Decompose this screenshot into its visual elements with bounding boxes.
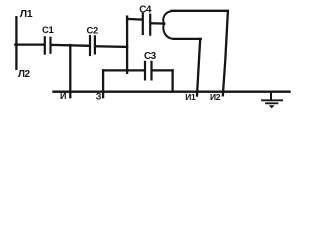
ground bar 3 (blob) [269,105,275,108]
wire: bottom bus [54,90,290,92]
capacitor C4 left plate [142,14,144,34]
svg-text:С1: С1 [42,25,54,36]
svg-text:И: И [60,91,66,101]
wire: output 1 vertical down to bus [197,39,200,96]
capacitor C1 left plate [44,37,46,53]
wire: branch to C4 [127,18,142,21]
svg-text:С2: С2 [87,25,98,36]
svg-text:С3: С3 [144,51,157,62]
wire: C3 loop top left segment [103,69,144,71]
capacitor C4 right plate [149,15,151,35]
wire: C4 to output brace [151,22,164,25]
capacitor C2 left plate [89,36,91,55]
wire: main horizontal from antenna to C1 [15,43,44,45]
wire: bottom line to output 1 [174,38,201,40]
svg-text:Л1: Л1 [20,8,33,20]
capacitor C3 left plate [144,62,146,80]
svg-text:И2: И2 [210,92,221,102]
wire: output 2 vertical down to bus [223,11,228,96]
ground bar 1 [262,99,282,101]
ground stem [270,93,272,101]
ground bar 2 [266,102,277,104]
svg-text:С4: С4 [139,5,152,16]
wire: junction I vertical (main wire down to bus) [69,45,71,97]
wire: C3 loop left vertical (node Z) [102,70,104,97]
svg-text:З: З [96,91,102,101]
capacitor C3 right plate [150,62,152,80]
svg-text:Л2: Л2 [18,69,31,80]
wire: top line to output 2 [172,10,228,12]
wire: C3 loop right vertical [171,70,173,91]
brace curl lower arc [163,24,173,39]
capacitor C1 right plate [49,38,51,53]
antenna terminal vertical line [15,17,17,69]
brace curl upper arc [163,11,171,23]
wire: C3 loop top right segment [153,69,173,71]
wire: junction vertical (node to C4 branch and C3 loop) [126,17,128,73]
capacitor C2 right plate [94,36,96,53]
wire: C1 to C2 [52,44,90,47]
wire: C2 to junction node [96,45,127,48]
svg-text:И1: И1 [185,92,196,102]
